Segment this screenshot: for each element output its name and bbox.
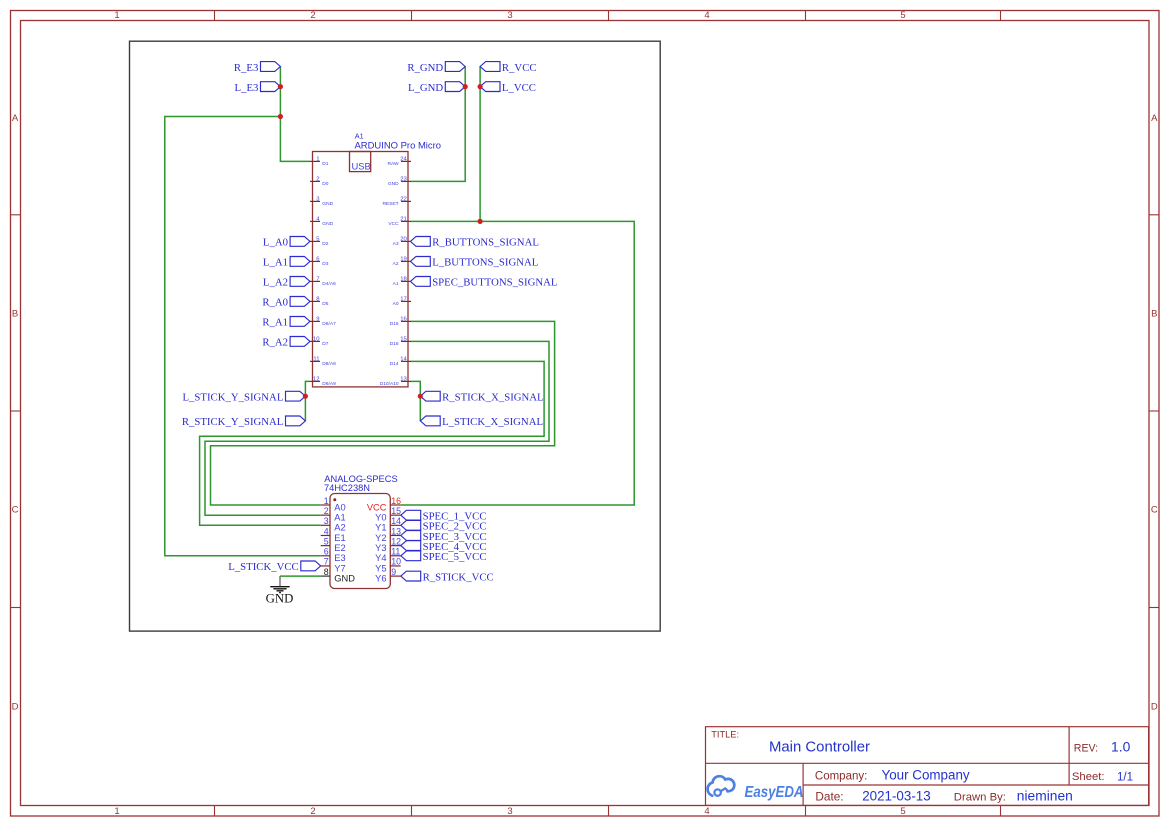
- svg-text:GND: GND: [334, 573, 355, 583]
- U2 pin1 dot: [333, 498, 336, 501]
- svg-text:R_STICK_X_SIGNAL: R_STICK_X_SIGNAL: [442, 391, 544, 403]
- svg-text:R_STICK_Y_SIGNAL: R_STICK_Y_SIGNAL: [182, 416, 284, 428]
- svg-text:Y6: Y6: [375, 573, 386, 583]
- svg-text:L_STICK_VCC: L_STICK_VCC: [228, 561, 298, 573]
- svg-text:B: B: [12, 308, 18, 319]
- A1 pin 15 D16: [390, 337, 411, 347]
- U2 pin 2 A1: [321, 506, 346, 523]
- svg-text:L_VCC: L_VCC: [502, 82, 536, 94]
- svg-text:A2: A2: [334, 523, 345, 533]
- svg-text:21: 21: [400, 217, 407, 223]
- svg-text:4: 4: [324, 526, 329, 536]
- A1 body: [313, 152, 409, 387]
- svg-text:Sheet:: Sheet:: [1072, 771, 1105, 783]
- svg-text:D: D: [12, 702, 19, 713]
- svg-text:Date:: Date:: [815, 789, 843, 803]
- svg-text:2: 2: [316, 177, 319, 183]
- svg-text:L_STICK_Y_SIGNAL: L_STICK_Y_SIGNAL: [182, 391, 283, 403]
- A1 pin 19 A2: [393, 257, 411, 267]
- net flag R_E3: [261, 62, 281, 72]
- svg-text:R_E3: R_E3: [234, 62, 259, 74]
- U2 pin 11 Y4: [375, 547, 401, 564]
- svg-text:16: 16: [391, 496, 401, 506]
- A1 pin 10 D7: [310, 337, 329, 347]
- A1 pin 4 GND: [310, 217, 334, 227]
- svg-text:D14: D14: [390, 361, 399, 367]
- svg-text:Your Company: Your Company: [882, 768, 970, 783]
- svg-text:A: A: [1151, 113, 1158, 124]
- svg-text:17: 17: [400, 297, 407, 303]
- schematic sheet border: [130, 41, 661, 631]
- net flag L_STICK_X_SIGNAL: [420, 416, 440, 426]
- svg-text:L_BUTTONS_SIGNAL: L_BUTTONS_SIGNAL: [432, 257, 538, 269]
- A1 pin 13 D10/A10: [380, 377, 411, 387]
- svg-text:24: 24: [400, 157, 407, 163]
- svg-text:D15: D15: [390, 321, 399, 327]
- svg-text:D8/A8: D8/A8: [322, 361, 336, 367]
- net flag L_STICK_Y_SIGNAL: [286, 391, 306, 401]
- wire net E3 vertical from R_E3 flag through L_E3 to pin D1: [280, 67, 310, 162]
- svg-text:GND: GND: [322, 201, 333, 207]
- svg-text:EasyEDA: EasyEDA: [745, 784, 804, 801]
- svg-text:ARDUINO Pro Micro: ARDUINO Pro Micro: [355, 141, 442, 152]
- svg-text:12: 12: [313, 377, 320, 383]
- svg-text:1/1: 1/1: [1117, 771, 1133, 783]
- svg-text:E2: E2: [334, 543, 345, 553]
- net flag SPEC_4_VCC: [401, 541, 421, 551]
- A1 pin 2 D0: [310, 177, 329, 187]
- A1 pin 3 GND: [310, 197, 334, 207]
- wire net D16 from pin 15 to 74HC238 A1: [205, 341, 549, 515]
- net flag R_A2: [290, 337, 310, 347]
- svg-text:C: C: [1151, 505, 1158, 516]
- net flag L_A1: [290, 257, 310, 267]
- svg-text:SPEC_5_VCC: SPEC_5_VCC: [423, 551, 487, 563]
- svg-text:D6/A7: D6/A7: [322, 321, 336, 327]
- svg-text:1: 1: [114, 806, 119, 817]
- U2 pin 10 Y5: [375, 557, 401, 574]
- svg-text:4: 4: [704, 806, 709, 817]
- svg-text:R_A0: R_A0: [262, 297, 288, 309]
- svg-text:2: 2: [310, 10, 315, 21]
- svg-text:Y7: Y7: [334, 563, 345, 573]
- svg-text:13: 13: [391, 526, 401, 536]
- svg-text:RAW: RAW: [387, 161, 399, 167]
- svg-text:4: 4: [704, 10, 709, 21]
- svg-text:REV:: REV:: [1074, 742, 1098, 754]
- A1 pin 9 D6/A7: [310, 317, 336, 327]
- svg-text:3: 3: [324, 516, 329, 526]
- svg-text:D16: D16: [390, 341, 399, 347]
- svg-text:19: 19: [400, 257, 407, 263]
- svg-text:L_A2: L_A2: [263, 277, 288, 289]
- svg-text:14: 14: [400, 357, 407, 363]
- svg-text:A1: A1: [355, 131, 364, 140]
- svg-text:11: 11: [313, 357, 319, 363]
- net flag R_STICK_VCC: [401, 571, 421, 581]
- U2 pin 14 Y1: [375, 516, 401, 533]
- svg-text:2: 2: [310, 806, 315, 817]
- svg-text:D7: D7: [322, 341, 328, 347]
- svg-text:1.0: 1.0: [1111, 739, 1131, 755]
- A1 pin 6 D3: [310, 257, 329, 267]
- svg-text:D5: D5: [322, 301, 328, 307]
- svg-text:3: 3: [507, 806, 512, 817]
- U2 pin 3 A2: [321, 516, 346, 533]
- U2 pin 5 E2: [321, 536, 346, 553]
- svg-text:VCC: VCC: [388, 221, 399, 227]
- net flag SPEC_BUTTONS_SIGNAL: [410, 277, 430, 287]
- svg-text:VCC: VCC: [367, 502, 387, 512]
- svg-text:8: 8: [324, 567, 329, 577]
- U2 pin 8 GND: [321, 567, 356, 584]
- svg-text:7: 7: [316, 277, 319, 283]
- svg-text:Main Controller: Main Controller: [769, 740, 870, 756]
- svg-text:nieminen: nieminen: [1017, 788, 1073, 803]
- svg-text:L_A0: L_A0: [263, 237, 288, 249]
- svg-text:D2: D2: [322, 241, 328, 247]
- svg-text:2021-03-13: 2021-03-13: [862, 789, 931, 804]
- svg-text:R_GND: R_GND: [407, 62, 443, 74]
- title block grid: [706, 727, 1149, 806]
- svg-text:Y2: Y2: [375, 533, 386, 543]
- svg-text:18: 18: [400, 277, 407, 283]
- svg-text:11: 11: [391, 547, 400, 557]
- svg-text:7: 7: [324, 557, 329, 567]
- wire net VCC from pin 21 to 74HC238 pin 16: [401, 221, 635, 505]
- U2 pin 1 A0: [321, 496, 346, 513]
- net flag SPEC_3_VCC: [401, 531, 421, 541]
- A1 pin 24 RAW: [387, 157, 411, 167]
- svg-text:1: 1: [114, 10, 119, 21]
- svg-text:E3: E3: [334, 553, 345, 563]
- svg-text:R_STICK_VCC: R_STICK_VCC: [423, 571, 494, 583]
- net flag R_STICK_X_SIGNAL: [420, 391, 440, 401]
- wire net GND from R_GND/L_GND flags to pin 23: [410, 67, 465, 182]
- svg-text:E1: E1: [334, 533, 345, 543]
- net flag R_A1: [290, 317, 310, 327]
- junction dot 3: [463, 84, 468, 89]
- svg-text:A1: A1: [393, 281, 399, 287]
- wire 74HC238 GND pin 8 to ground: [280, 575, 321, 577]
- net flag L_STICK_VCC: [301, 561, 321, 571]
- net flag R_STICK_Y_SIGNAL: [286, 416, 306, 426]
- U2 pin 16 VCC: [367, 496, 401, 513]
- A1 pin 12 D9/A9: [310, 377, 336, 387]
- svg-text:L_GND: L_GND: [408, 82, 443, 94]
- A1 pin 17 A0: [393, 297, 411, 307]
- svg-text:1: 1: [316, 157, 319, 163]
- U2 body: [330, 494, 390, 589]
- svg-text:Y3: Y3: [375, 543, 386, 553]
- svg-text:L_STICK_X_SIGNAL: L_STICK_X_SIGNAL: [442, 416, 543, 428]
- frame row tick marks: [11, 215, 1160, 608]
- svg-text:D: D: [1151, 702, 1158, 713]
- svg-text:9: 9: [391, 567, 396, 577]
- U2 pin 12 Y3: [375, 536, 401, 553]
- svg-text:R_A2: R_A2: [262, 337, 288, 349]
- svg-text:D9/A9: D9/A9: [322, 381, 336, 387]
- svg-text:74HC238N: 74HC238N: [324, 483, 370, 493]
- EasyEDA logo cloud: [708, 776, 735, 796]
- svg-text:L_E3: L_E3: [235, 82, 259, 94]
- svg-text:Company:: Company:: [815, 771, 867, 783]
- net flag L_GND: [445, 82, 465, 92]
- svg-text:Y0: Y0: [375, 513, 386, 523]
- ground symbol GND: [266, 576, 294, 605]
- net flag L_A2: [290, 277, 310, 287]
- svg-text:1: 1: [324, 496, 329, 506]
- junction dot 4: [478, 84, 483, 89]
- svg-text:22: 22: [400, 197, 407, 203]
- svg-text:3: 3: [507, 10, 512, 21]
- svg-text:D4/A6: D4/A6: [322, 281, 336, 287]
- svg-text:A0: A0: [393, 301, 399, 307]
- U2 pin 9 Y6: [375, 567, 401, 584]
- A1 pin 7 D4/A6: [310, 277, 336, 287]
- A1 pin 8 D5: [310, 297, 329, 307]
- wire net D10/A10 to stick X flags: [410, 381, 420, 421]
- svg-text:D10/A10: D10/A10: [380, 381, 399, 387]
- junction dot 5: [478, 219, 483, 224]
- svg-text:5: 5: [900, 806, 905, 817]
- svg-text:R_A1: R_A1: [262, 317, 288, 329]
- wire net VCC vertical from R_VCC/L_VCC flags: [479, 67, 481, 222]
- U2 pin 7 Y7: [321, 557, 346, 574]
- svg-text:D0: D0: [322, 181, 328, 187]
- junction dot 2: [278, 114, 283, 119]
- net flag L_A0: [290, 237, 310, 247]
- svg-text:SPEC_BUTTONS_SIGNAL: SPEC_BUTTONS_SIGNAL: [432, 277, 557, 289]
- svg-text:USB: USB: [352, 160, 371, 171]
- svg-text:D1: D1: [322, 161, 328, 167]
- frame column tick marks: [215, 11, 1001, 817]
- A1 pin 11 D8/A8: [310, 357, 336, 367]
- junction dot 7: [418, 394, 423, 399]
- U2 pin 6 E3: [321, 547, 346, 564]
- svg-text:15: 15: [400, 337, 407, 343]
- svg-text:A2: A2: [393, 261, 399, 267]
- junction dot 6: [303, 394, 308, 399]
- svg-text:2: 2: [324, 506, 329, 516]
- net flag SPEC_2_VCC: [401, 520, 421, 530]
- svg-text:5: 5: [900, 10, 905, 21]
- svg-text:D3: D3: [322, 261, 328, 267]
- svg-text:L_A1: L_A1: [263, 257, 288, 269]
- svg-text:13: 13: [400, 377, 407, 383]
- net flag R_VCC: [480, 62, 500, 72]
- svg-text:Y5: Y5: [375, 563, 386, 573]
- svg-text:GND: GND: [322, 221, 333, 227]
- svg-text:23: 23: [400, 177, 407, 183]
- A1 pin 5 D2: [310, 237, 329, 247]
- svg-text:A3: A3: [393, 241, 399, 247]
- svg-text:A0: A0: [334, 502, 345, 512]
- A1 pin 21 VCC: [388, 217, 411, 227]
- svg-text:A: A: [12, 113, 19, 124]
- net flag SPEC_5_VCC: [401, 551, 421, 561]
- U2 pin 15 Y0: [375, 506, 401, 523]
- A1 pin 14 D14: [390, 357, 411, 367]
- svg-text:9: 9: [316, 317, 319, 323]
- svg-text:Y4: Y4: [375, 553, 386, 563]
- svg-text:C: C: [12, 505, 19, 516]
- U2 pin 13 Y2: [375, 526, 401, 543]
- net flag R_GND: [445, 62, 465, 72]
- junction dot 1: [278, 84, 283, 89]
- A1 pin 22 RESET: [382, 197, 411, 207]
- A1 pin 16 D15: [390, 317, 411, 327]
- A1 pin 18 A1: [393, 277, 411, 287]
- svg-text:R_VCC: R_VCC: [502, 62, 537, 74]
- svg-text:14: 14: [391, 516, 401, 526]
- svg-text:Drawn By:: Drawn By:: [954, 791, 1006, 803]
- svg-text:B: B: [1151, 308, 1157, 319]
- A1 USB box: [350, 152, 371, 172]
- svg-text:5: 5: [324, 536, 329, 546]
- svg-text:GND: GND: [266, 591, 294, 605]
- svg-text:15: 15: [391, 506, 401, 516]
- svg-text:A1: A1: [334, 513, 345, 523]
- svg-text:6: 6: [324, 547, 329, 557]
- net flag SPEC_1_VCC: [401, 510, 421, 520]
- svg-text:10: 10: [313, 337, 320, 343]
- svg-text:TITLE:: TITLE:: [711, 730, 739, 740]
- net flag R_BUTTONS_SIGNAL: [410, 237, 430, 247]
- frame column numbers 1-5: [114, 10, 905, 817]
- wire net D9/A9 to stick Y flags: [305, 381, 310, 421]
- U2 pin 4 E1: [321, 526, 346, 543]
- frame row letters A-D: [12, 113, 1159, 713]
- wire net D14 from pin 14 to 74HC238 A2: [200, 361, 544, 525]
- net flag L_VCC: [480, 82, 500, 92]
- svg-text:20: 20: [400, 237, 407, 243]
- wire net D15 from pin 16 to 74HC238 A0: [211, 321, 555, 505]
- svg-text:RESET: RESET: [382, 201, 398, 207]
- net flag L_BUTTONS_SIGNAL: [410, 257, 430, 267]
- net flag L_E3: [261, 82, 281, 92]
- svg-text:12: 12: [391, 536, 401, 546]
- wire net E3 branch to 74HC238 pin E3: [165, 117, 321, 556]
- svg-text:Y1: Y1: [375, 523, 386, 533]
- svg-text:16: 16: [400, 317, 407, 323]
- svg-text:R_BUTTONS_SIGNAL: R_BUTTONS_SIGNAL: [432, 237, 539, 249]
- A1 pin 1 D1: [310, 157, 329, 167]
- svg-text:GND: GND: [388, 181, 399, 187]
- svg-text:10: 10: [391, 557, 401, 567]
- net flag R_A0: [290, 297, 310, 307]
- A1 pin 23 GND: [388, 177, 411, 187]
- A1 pin 20 A3: [393, 237, 411, 247]
